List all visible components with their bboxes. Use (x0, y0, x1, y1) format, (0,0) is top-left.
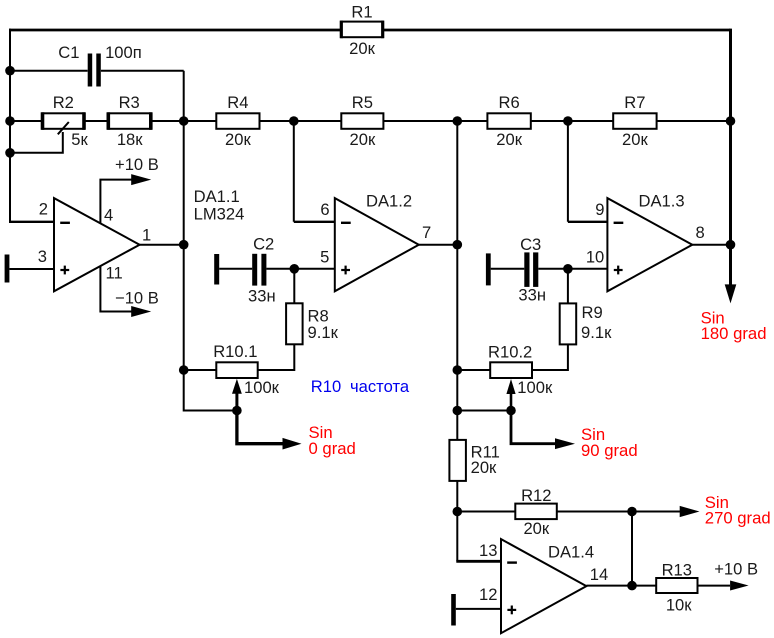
svg-text:100к: 100к (244, 378, 280, 397)
svg-text:R10.2: R10.2 (488, 342, 532, 361)
svg-text:14: 14 (590, 565, 608, 584)
svg-text:1: 1 (142, 226, 151, 245)
svg-text:R1: R1 (351, 2, 372, 21)
svg-text:18к: 18к (117, 130, 143, 149)
svg-text:9: 9 (595, 200, 604, 219)
svg-text:9.1к: 9.1к (581, 323, 612, 342)
svg-text:+10 В: +10 В (714, 560, 758, 579)
svg-text:10: 10 (586, 248, 604, 267)
svg-text:C1: C1 (58, 43, 79, 62)
svg-text:6: 6 (320, 200, 329, 219)
svg-text:2: 2 (39, 199, 48, 218)
svg-text:R10.1: R10.1 (213, 342, 257, 361)
svg-text:33н: 33н (518, 286, 546, 305)
svg-text:−10 В: −10 В (115, 288, 159, 307)
svg-text:10к: 10к (666, 596, 692, 615)
svg-text:DA1.1: DA1.1 (194, 187, 240, 206)
svg-text:C2: C2 (253, 234, 274, 253)
svg-text:3: 3 (38, 247, 47, 266)
svg-text:33н: 33н (248, 287, 276, 306)
svg-text:90 grad: 90 grad (581, 441, 638, 460)
svg-text:20к: 20к (350, 130, 376, 149)
svg-text:R5: R5 (352, 93, 373, 112)
svg-text:5: 5 (320, 248, 329, 267)
svg-text:R2: R2 (53, 93, 74, 112)
svg-text:13: 13 (479, 541, 497, 560)
svg-text:R3: R3 (119, 93, 140, 112)
svg-text:R9: R9 (582, 303, 603, 322)
svg-text:7: 7 (422, 223, 431, 242)
svg-text:DA1.2: DA1.2 (366, 191, 412, 210)
svg-text:R12: R12 (521, 486, 551, 505)
svg-text:11: 11 (106, 264, 123, 283)
svg-text:R7: R7 (624, 93, 645, 112)
svg-text:100п: 100п (105, 43, 142, 62)
svg-text:R10частота: R10частота (311, 377, 410, 396)
svg-text:4: 4 (104, 206, 113, 225)
svg-text:R6: R6 (498, 93, 519, 112)
svg-text:LM324: LM324 (194, 204, 245, 223)
svg-text:12: 12 (479, 585, 497, 604)
svg-text:+10 В: +10 В (115, 155, 159, 174)
svg-text:100к: 100к (517, 378, 553, 397)
svg-text:C3: C3 (520, 235, 541, 254)
svg-text:R13: R13 (662, 561, 692, 580)
svg-text:8: 8 (696, 223, 705, 242)
svg-text:270 grad: 270 grad (705, 509, 771, 528)
svg-text:20к: 20к (496, 130, 522, 149)
svg-text:0 grad: 0 grad (309, 439, 356, 458)
svg-text:9.1к: 9.1к (308, 323, 339, 342)
svg-text:R4: R4 (227, 93, 248, 112)
svg-text:20к: 20к (523, 519, 549, 538)
svg-text:DA1.3: DA1.3 (639, 191, 685, 210)
svg-text:20к: 20к (225, 130, 251, 149)
svg-text:DA1.4: DA1.4 (548, 543, 594, 562)
svg-text:20к: 20к (349, 39, 375, 58)
svg-text:5к: 5к (71, 130, 88, 149)
svg-text:20к: 20к (471, 458, 497, 477)
svg-text:180 grad: 180 grad (701, 324, 767, 343)
svg-text:20к: 20к (622, 130, 648, 149)
